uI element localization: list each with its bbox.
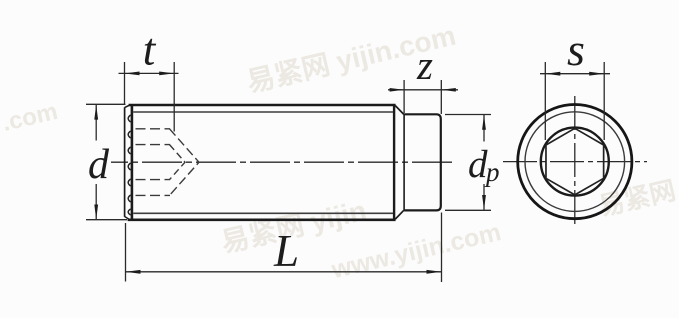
svg-text:t: t — [143, 25, 157, 75]
svg-text:d: d — [468, 143, 488, 186]
svg-text:p: p — [484, 157, 500, 187]
svg-text:L: L — [273, 226, 299, 276]
svg-text:d: d — [88, 142, 110, 188]
svg-text:z: z — [416, 42, 433, 88]
svg-text:s: s — [567, 24, 585, 75]
